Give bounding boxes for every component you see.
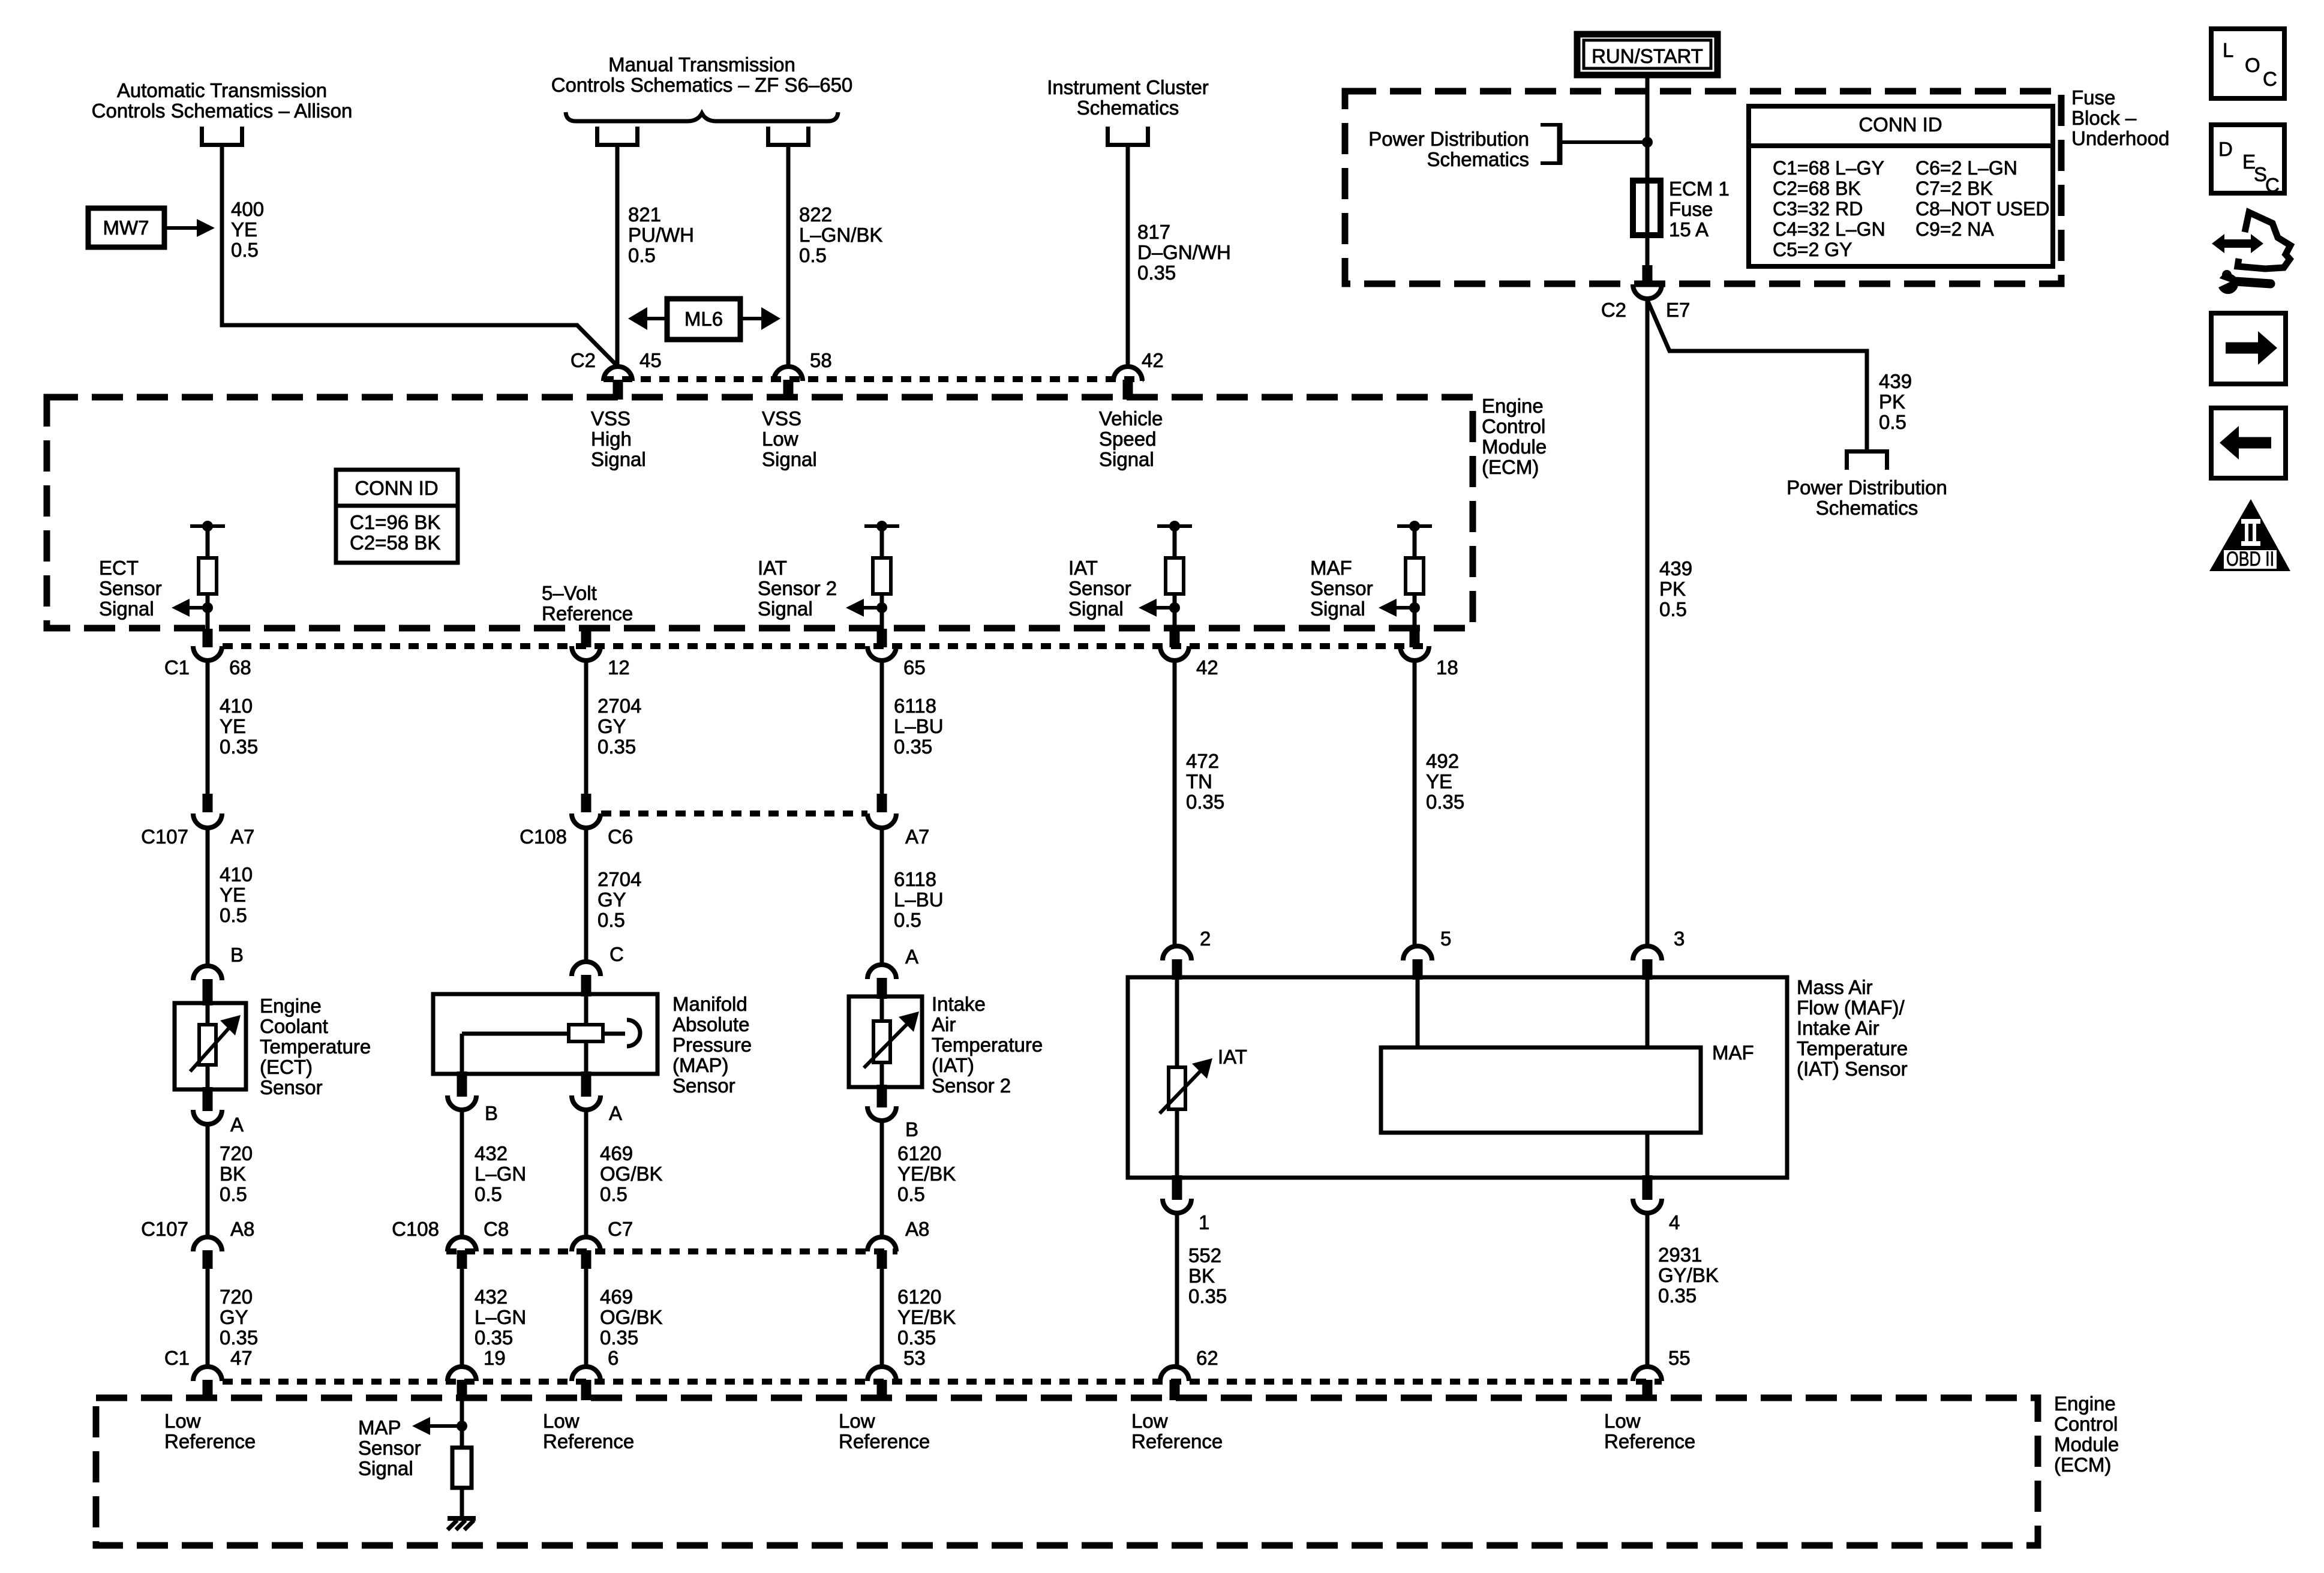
svg-text:L: L bbox=[2223, 39, 2233, 61]
svg-text:C5=2 GY: C5=2 GY bbox=[1773, 239, 1852, 260]
wire 2704 GY 0.35 bbox=[584, 661, 588, 796]
in-line connector C107 pin A7 bbox=[193, 794, 222, 828]
ECM internal resistor (MAP signal) bbox=[452, 1448, 472, 1488]
ECT sensor pin B connector bbox=[193, 966, 222, 1005]
svg-text:12: 12 bbox=[608, 656, 630, 679]
MAP sensor signal arrow bbox=[412, 1417, 462, 1435]
off-page connector to Automatic Transmission schematics bbox=[202, 127, 242, 145]
svg-text:45: 45 bbox=[639, 349, 662, 371]
Manifold Absolute Pressure (MAP) Sensor box bbox=[433, 994, 657, 1074]
svg-text:62: 62 bbox=[1196, 1347, 1218, 1369]
svg-text:53: 53 bbox=[903, 1347, 926, 1369]
connector face dotted line row 4 bbox=[446, 1248, 897, 1254]
wire 432 L-GN 0.5 bbox=[460, 1110, 464, 1237]
ML6 left arrow bbox=[628, 307, 667, 330]
svg-text:42: 42 bbox=[1142, 349, 1164, 371]
wire resistor to ground bbox=[460, 1488, 464, 1516]
ground symbol bbox=[448, 1518, 476, 1530]
Engine Control Module (ECM) dashed box top bbox=[47, 397, 1473, 628]
svg-text:3: 3 bbox=[1674, 927, 1685, 950]
svg-text:A: A bbox=[905, 945, 918, 968]
svg-text:C6=2 L–GN: C6=2 L–GN bbox=[1915, 157, 2017, 179]
ECM connector C1 pin at x=346 (row5) bbox=[193, 1367, 222, 1400]
svg-text:2: 2 bbox=[1200, 927, 1211, 950]
in-line connector C107 pin A8 bbox=[193, 1237, 222, 1269]
svg-text:C1: C1 bbox=[164, 1347, 190, 1369]
svg-text:65: 65 bbox=[903, 656, 926, 679]
connector face dotted line row 3 bbox=[601, 810, 867, 816]
IAT thermistor (in MAF) bbox=[1160, 1058, 1212, 1113]
ECM connector C1 pin at x=977 bbox=[572, 629, 600, 661]
off-page connector instrument cluster bbox=[1108, 127, 1148, 145]
ECM connector C1 pin at x=1958 bbox=[1160, 629, 1189, 661]
MAF/IAT pin 1 connector bbox=[1163, 1175, 1191, 1213]
svg-text:6: 6 bbox=[608, 1347, 618, 1369]
svg-text:42: 42 bbox=[1196, 656, 1218, 679]
IAT2 thermistor bbox=[864, 1011, 919, 1068]
fuse block connector C2 pin E7 bbox=[1633, 265, 1662, 299]
ECM internal pull-up for ECT signal bbox=[190, 521, 225, 631]
svg-text:C2=68 BK: C2=68 BK bbox=[1773, 178, 1861, 199]
svg-text:55: 55 bbox=[1668, 1347, 1691, 1369]
MAF signal arrow bbox=[1379, 599, 1415, 617]
wire 6120 YE/BK 0.35 bbox=[880, 1269, 884, 1367]
wire 6118 L-BU 0.5 bbox=[880, 828, 884, 965]
IAT sensor 2 pin B connector bbox=[867, 1085, 896, 1121]
svg-text:D: D bbox=[2218, 138, 2233, 160]
svg-text:A8: A8 bbox=[905, 1218, 929, 1240]
CONN ID table (ECM) bbox=[336, 470, 458, 563]
wire 432 L-GN 0.35 bbox=[460, 1269, 464, 1367]
ECM connector C1 pin at x=1470 bbox=[867, 629, 896, 661]
svg-text:A8: A8 bbox=[230, 1218, 254, 1240]
ECT signal arrow bbox=[172, 599, 208, 617]
right arrow icon box bbox=[2211, 313, 2286, 384]
wire 6118 L-BU 0.35 bbox=[880, 661, 884, 796]
svg-text:C108: C108 bbox=[392, 1218, 439, 1240]
OBD II triangle icon bbox=[2209, 499, 2290, 571]
wire 410 YE 0.5 bbox=[206, 828, 210, 966]
svg-text:19: 19 bbox=[484, 1347, 506, 1369]
svg-text:O: O bbox=[2245, 54, 2260, 76]
MAP sensor pin C connector bbox=[572, 962, 600, 996]
svg-text:EngineControlModule(ECM): EngineControlModule(ECM) bbox=[2054, 1392, 2119, 1476]
ECM internal pull-up for MAF signal bbox=[1397, 521, 1432, 631]
Mass Air Flow (MAF)/Intake Air Temperature (IAT) Sensor box bbox=[1128, 977, 1787, 1178]
ECM connector C1 pin at x=770 (row5) bbox=[448, 1367, 476, 1400]
svg-text:C107: C107 bbox=[141, 1218, 188, 1240]
MAF/IAT pin 5 connector bbox=[1403, 946, 1432, 980]
wire 410 YE 0.35 bbox=[206, 661, 210, 796]
wire 492 YE 0.35 bbox=[1413, 661, 1417, 947]
IAT signal arrow bbox=[1139, 599, 1175, 617]
svg-text:B: B bbox=[230, 944, 244, 966]
RUN/START box bbox=[1577, 34, 1718, 75]
wire 822 L-GN/BK bbox=[786, 147, 791, 367]
MAF inner box bbox=[1381, 1047, 1701, 1133]
Fuse Block - Underhood dashed box bbox=[1345, 91, 2061, 284]
ECM connector C1 pin at x=977 (row5) bbox=[572, 1367, 600, 1400]
wire from RUN/START through ECM 1 fuse bbox=[1646, 78, 1650, 268]
svg-text:EngineControlModule(ECM): EngineControlModule(ECM) bbox=[1482, 395, 1547, 478]
MAP sensor pin B connector bbox=[448, 1071, 476, 1110]
off-page connector manual transmission (VSS high) bbox=[597, 127, 638, 145]
wire 469 OG/BK 0.35 bbox=[584, 1269, 588, 1367]
ECM connector C1 pin at x=346 bbox=[193, 629, 222, 661]
svg-text:C8: C8 bbox=[484, 1218, 509, 1240]
svg-text:68: 68 bbox=[229, 656, 251, 679]
svg-text:A7: A7 bbox=[905, 825, 929, 848]
svg-text:C2: C2 bbox=[1601, 299, 1626, 321]
MAF/IAT pin 2 connector bbox=[1163, 946, 1191, 980]
wire 472 TN 0.35 bbox=[1173, 661, 1177, 947]
MW7 option box bbox=[88, 208, 164, 247]
left arrow icon box bbox=[2211, 408, 2286, 478]
IAT2 signal arrow bbox=[846, 599, 882, 617]
wire 6120 YE/BK 0.5 bbox=[880, 1121, 884, 1237]
ECM 1 fuse bbox=[1633, 181, 1661, 235]
svg-text:MAF: MAF bbox=[1712, 1041, 1754, 1064]
svg-text:C108: C108 bbox=[520, 825, 567, 848]
svg-text:C107: C107 bbox=[141, 825, 188, 848]
svg-text:C7=2 BK: C7=2 BK bbox=[1915, 178, 1993, 199]
svg-text:47: 47 bbox=[230, 1347, 253, 1369]
ECM connector C2 pin 42 bbox=[1113, 367, 1142, 400]
off-page connector to Power Distribution Schematics bbox=[1847, 452, 1887, 470]
svg-text:C: C bbox=[609, 943, 624, 965]
svg-text:A7: A7 bbox=[230, 825, 254, 848]
svg-text:C1: C1 bbox=[164, 656, 190, 679]
svg-text:5: 5 bbox=[1440, 927, 1451, 950]
ECM connector C1 pin at x=1958 (row5) bbox=[1160, 1367, 1189, 1400]
svg-text:C1=68 L–GY: C1=68 L–GY bbox=[1773, 157, 1884, 179]
svg-text:OBD II: OBD II bbox=[2226, 548, 2274, 571]
ECM internal pull-up for IAT2 signal bbox=[864, 521, 899, 631]
connector face dotted line row 1 bbox=[603, 376, 1143, 382]
CONN ID table (fuse block) bbox=[1749, 106, 2053, 266]
DESC icon box bbox=[2211, 125, 2284, 196]
wire 469 OG/BK 0.5 bbox=[584, 1110, 588, 1237]
svg-text:C4=32 L–GN: C4=32 L–GN bbox=[1773, 218, 1885, 240]
wires inside MAF box bbox=[1175, 977, 1179, 1067]
svg-text:18: 18 bbox=[1436, 656, 1458, 679]
IAT sensor 2 pin A connector bbox=[867, 965, 896, 999]
ECM connector C1 pin at x=2358 bbox=[1400, 629, 1429, 661]
ECM connector C2 pin 45 bbox=[603, 367, 632, 400]
in-line connector pin A8 (IAT2) bbox=[867, 1237, 896, 1269]
wire 439 PK main feed to MAF pin 3 bbox=[1646, 299, 1650, 947]
connector face dotted line row 5 bbox=[223, 1379, 1662, 1385]
connector face dotted line row 2 bbox=[223, 643, 1430, 649]
wire bracket to junction bbox=[1562, 140, 1647, 144]
in-line connector C108 pin C7 bbox=[572, 1237, 600, 1269]
Intake Air Temperature (IAT) Sensor 2 box bbox=[849, 996, 922, 1087]
wire 2931 GY/BK 0.35 bbox=[1646, 1213, 1650, 1367]
wire 439 PK branch to power distribution bbox=[1647, 300, 1867, 449]
ML6 right arrow bbox=[740, 307, 780, 330]
wire 821 PU/WH bbox=[615, 147, 620, 367]
svg-text:C2=58 BK: C2=58 BK bbox=[350, 532, 440, 554]
svg-text:Automatic TransmissionControls: Automatic TransmissionControls Schematic… bbox=[92, 79, 353, 122]
svg-text:A: A bbox=[230, 1113, 244, 1136]
ECM internal pull-up for IAT signal bbox=[1157, 521, 1192, 631]
car diagnostic icon: double arrow, car outline, wrench bbox=[2212, 212, 2290, 294]
svg-text:C2: C2 bbox=[571, 349, 596, 371]
ECT thermistor bbox=[190, 1015, 241, 1071]
svg-text:C7: C7 bbox=[608, 1218, 633, 1240]
arrow from MW7 to wire 400 bbox=[164, 219, 215, 237]
Engine Control Module (ECM) dashed box bottom bbox=[96, 1398, 2038, 1545]
LOC icon box bbox=[2211, 29, 2284, 98]
svg-text:C6: C6 bbox=[608, 825, 633, 848]
Engine Coolant Temperature (ECT) Sensor box bbox=[175, 1003, 246, 1089]
in-line connector C108 pin C6 bbox=[572, 794, 600, 828]
svg-text:58: 58 bbox=[810, 349, 832, 371]
svg-text:1: 1 bbox=[1199, 1211, 1209, 1233]
svg-text:C8–NOT USED: C8–NOT USED bbox=[1915, 198, 2049, 220]
svg-text:E7: E7 bbox=[1666, 299, 1690, 321]
svg-text:IAT: IAT bbox=[1218, 1046, 1247, 1068]
svg-text:A: A bbox=[609, 1102, 622, 1124]
svg-text:C1=96 BK: C1=96 BK bbox=[350, 511, 440, 533]
wire pin 19 to resistor bbox=[460, 1398, 464, 1448]
in-line connector C108 pin C8 bbox=[448, 1237, 476, 1269]
wire 2704 GY 0.5 bbox=[584, 828, 588, 962]
svg-text:C3=32 RD: C3=32 RD bbox=[1773, 198, 1863, 220]
svg-text:B: B bbox=[905, 1118, 918, 1140]
wire 720 GY 0.35 bbox=[206, 1269, 210, 1367]
svg-text:ML6: ML6 bbox=[684, 308, 723, 330]
wire 720 BK 0.5 bbox=[206, 1124, 210, 1237]
off-page connector manual transmission (VSS low) bbox=[768, 127, 809, 145]
wire 400 YE from off-page to ECM pin 45 bbox=[222, 147, 618, 367]
svg-text:C9=2 NA: C9=2 NA bbox=[1915, 218, 1994, 240]
svg-text:VehicleSpeedSignal: VehicleSpeedSignal bbox=[1099, 407, 1163, 470]
in-line connector pin A7 (IAT2) bbox=[867, 794, 896, 828]
svg-text:4: 4 bbox=[1669, 1211, 1680, 1233]
svg-text:B: B bbox=[485, 1102, 498, 1124]
ECM connector C1 pin at x=1470 (row5) bbox=[867, 1367, 896, 1400]
ECT sensor pin A connector bbox=[193, 1087, 222, 1124]
MAP sensor pin A connector bbox=[572, 1071, 600, 1110]
svg-text:C: C bbox=[2263, 68, 2277, 90]
junction dot MAP sensor signal bbox=[457, 1421, 467, 1431]
ECM connector C2 pin 58 bbox=[774, 367, 803, 400]
ML6 option box bbox=[667, 299, 740, 340]
wire 817 D-GN/WH bbox=[1126, 147, 1130, 367]
brace over manual transmission branches bbox=[566, 112, 838, 121]
svg-text:C: C bbox=[2265, 174, 2280, 196]
svg-text:CONN ID: CONN ID bbox=[355, 477, 438, 499]
wire 552 BK 0.35 bbox=[1175, 1213, 1179, 1367]
svg-text:RUN/START: RUN/START bbox=[1592, 45, 1703, 67]
junction dot at fuse feed bbox=[1642, 137, 1653, 148]
svg-text:CONN ID: CONN ID bbox=[1858, 113, 1942, 136]
ECM connector C1 pin at x=2746 (row5) bbox=[1633, 1367, 1662, 1400]
off-page bracket to Power Distribution (in fuse block) bbox=[1541, 123, 1560, 165]
MAF/IAT pin 4 connector bbox=[1633, 1175, 1662, 1213]
MAF/IAT pin 3 connector bbox=[1633, 946, 1662, 980]
svg-text:MW7: MW7 bbox=[103, 217, 149, 239]
